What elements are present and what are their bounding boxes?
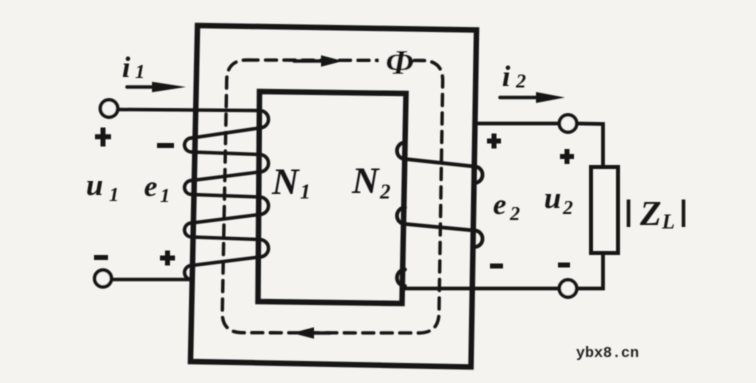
svg-text:L: L [661, 210, 675, 234]
svg-text:e: e [144, 170, 157, 203]
svg-text:i: i [502, 60, 511, 93]
svg-text:1: 1 [135, 61, 145, 83]
svg-text:Z: Z [639, 194, 661, 233]
svg-text:N: N [351, 161, 380, 202]
svg-text:u: u [544, 180, 561, 215]
svg-text:1: 1 [300, 180, 311, 204]
svg-text:N: N [271, 162, 300, 203]
svg-text:2: 2 [562, 197, 573, 219]
svg-text:2: 2 [509, 203, 520, 225]
svg-text:u: u [86, 167, 103, 202]
svg-text:2: 2 [515, 71, 526, 93]
svg-text:i: i [122, 51, 131, 84]
svg-text:2: 2 [379, 180, 391, 204]
svg-text:ybx8.cn: ybx8.cn [576, 345, 639, 362]
svg-text:1: 1 [160, 185, 170, 207]
svg-text:1: 1 [109, 184, 119, 206]
svg-text:e: e [493, 188, 506, 221]
svg-text:Φ: Φ [386, 43, 414, 82]
